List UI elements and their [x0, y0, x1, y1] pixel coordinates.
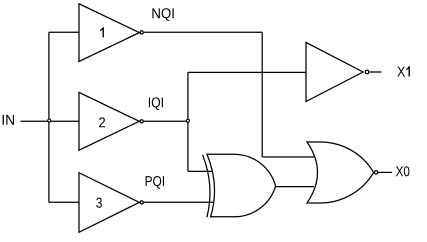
wire X0 output — [378, 171, 392, 173]
inverter 1 triangle — [79, 4, 139, 62]
wire to inverter U4 input — [188, 71, 306, 73]
wire IQI branch down — [187, 121, 189, 171]
NOR gate body — [307, 142, 374, 203]
junction node on IN bus — [48, 119, 51, 122]
label NQI — [152, 8, 173, 21]
label 1 — [100, 27, 104, 37]
inverter U4 bubble — [365, 70, 369, 74]
inverter 1 bubble — [140, 31, 143, 34]
inverter U4 triangle — [306, 42, 363, 101]
XOR gate body — [207, 154, 276, 217]
wire vertical bus — [48, 32, 50, 202]
inverter 3 bubble — [140, 201, 143, 204]
junction node IQI — [186, 119, 189, 122]
wire XOR output to NOR — [276, 186, 314, 188]
wire X1 output — [370, 71, 382, 73]
wire IQI branch up — [187, 72, 189, 121]
wire bus to inverter 3 input — [49, 201, 79, 203]
wire IN to bus — [21, 120, 80, 122]
label 3 — [96, 198, 102, 208]
wire IQI horizontal — [144, 120, 188, 122]
inverter 3 triangle — [79, 173, 139, 233]
label 2 — [99, 117, 105, 127]
inverter 2 bubble — [140, 120, 143, 123]
wire bus to inverter 1 input — [49, 31, 79, 33]
label X0 — [396, 166, 410, 176]
inverter 2 triangle — [79, 92, 139, 150]
label IN — [3, 115, 14, 125]
label IQI — [149, 97, 163, 110]
wire NOR top input — [262, 156, 314, 158]
wire PQI to XOR bottom input — [144, 201, 214, 203]
XOR gate extra input arc — [203, 155, 210, 218]
label X1 — [397, 66, 410, 76]
wire NQI vertical — [261, 32, 263, 157]
label PQI — [146, 176, 164, 189]
NOR gate bubble — [374, 171, 377, 174]
wire XOR top input — [188, 170, 213, 172]
wire NQI horizontal — [144, 31, 262, 33]
